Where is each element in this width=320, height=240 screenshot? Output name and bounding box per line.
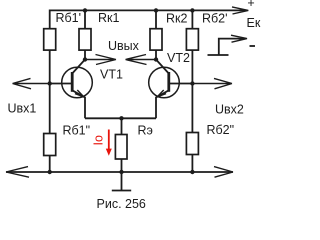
svg-text:Uвх2: Uвх2 [215, 103, 244, 117]
wire VT2 base [170, 83, 192, 85]
svg-text:Rэ: Rэ [138, 124, 153, 138]
arrow current Io red [108, 130, 110, 150]
transistor VT2 base bar [167, 72, 170, 92]
node bottom rail Rb1" [48, 170, 52, 174]
arrow input Uvh2 base [192, 78, 232, 88]
node bottom rail ground [119, 170, 123, 174]
wire left bias branch [49, 50, 51, 133]
arrow - terminal of Ek [231, 35, 247, 42]
wire right bias branch [191, 50, 193, 132]
arrow input Uvh1 base [13, 78, 50, 88]
ground chassis bar [112, 190, 131, 192]
node top rail Rk1 [83, 8, 87, 12]
arrow Uvyh right tap [126, 55, 157, 65]
svg-text:Rк1: Rк1 [98, 11, 119, 25]
svg-text:Rб2": Rб2" [207, 123, 235, 137]
arrow input Uvh1 lower [6, 167, 29, 178]
resistor Rb2" [186, 133, 198, 155]
wire VT1 emitter lead [72, 90, 85, 118]
svg-text:Ек: Ек [247, 16, 261, 30]
svg-text:Rк2: Rк2 [166, 12, 187, 26]
wire bottom rail [6, 171, 233, 173]
node VT2 collector [154, 57, 158, 61]
wire Rk1 top stub [84, 10, 86, 28]
wire emitter rail [85, 117, 156, 119]
wire top supply rail [50, 10, 247, 28]
wire VT2 collector lead [156, 60, 169, 74]
node VT1 collector [83, 57, 87, 61]
wire VT1 collector stub [84, 50, 86, 59]
transistor VT1 base bar [71, 72, 74, 92]
node VT2 base [190, 81, 194, 85]
wire ground stub [121, 172, 123, 191]
wire VT2 emitter lead [156, 90, 169, 118]
resistor Rk1 [79, 29, 91, 50]
svg-text:Uвх1: Uвх1 [8, 101, 37, 115]
node emitter rail Re [119, 116, 123, 120]
node top rail Rb2' [190, 8, 194, 12]
wire VT1 collector lead [72, 60, 85, 74]
resistor Rb1' [44, 29, 56, 50]
svg-text:VT1: VT1 [100, 68, 123, 82]
wire Rb2' top stub [191, 10, 193, 28]
svg-text:Рис. 256: Рис. 256 [97, 197, 146, 211]
resistor Rb2' [186, 29, 198, 50]
ground chassis bar (Ek minus) [208, 54, 229, 56]
svg-text:Rб1': Rб1' [56, 11, 82, 25]
svg-text:Rб1": Rб1" [63, 124, 91, 138]
resistor Rk2 [150, 29, 162, 50]
resistor Re [115, 135, 127, 160]
svg-text:Uвых: Uвых [108, 39, 140, 53]
arrow Uvyh left tap [85, 55, 116, 65]
resistor Rb1" [44, 134, 56, 156]
svg-text:Rб2': Rб2' [202, 12, 228, 26]
arrow input Uvh2 lower [214, 167, 233, 178]
wire Rb1" bottom stub [49, 156, 51, 173]
wire Re top stub [121, 118, 123, 134]
node top rail Rk2 [154, 8, 158, 12]
svg-text:+: + [247, 0, 254, 10]
wire VT1 base [50, 83, 71, 85]
transistor VT1 body [62, 67, 93, 98]
wire Re bottom stub [121, 159, 123, 172]
label - [250, 45, 256, 47]
wire Rb2" bottom stub [191, 155, 193, 173]
node VT1 base [48, 81, 52, 85]
arrow VT2 emitter [157, 90, 166, 97]
wire Rk2 top stub [155, 10, 157, 28]
node bottom rail Rb2" [190, 170, 194, 174]
wire VT2 collector stub [155, 50, 157, 59]
arrow + terminal of Ek [232, 7, 248, 14]
svg-text:Iо: Iо [92, 135, 106, 145]
transistor VT2 body [149, 67, 180, 98]
arrow VT1 emitter [75, 90, 84, 97]
wire Ek minus lead [219, 39, 246, 55]
svg-text:VT2: VT2 [167, 51, 190, 65]
